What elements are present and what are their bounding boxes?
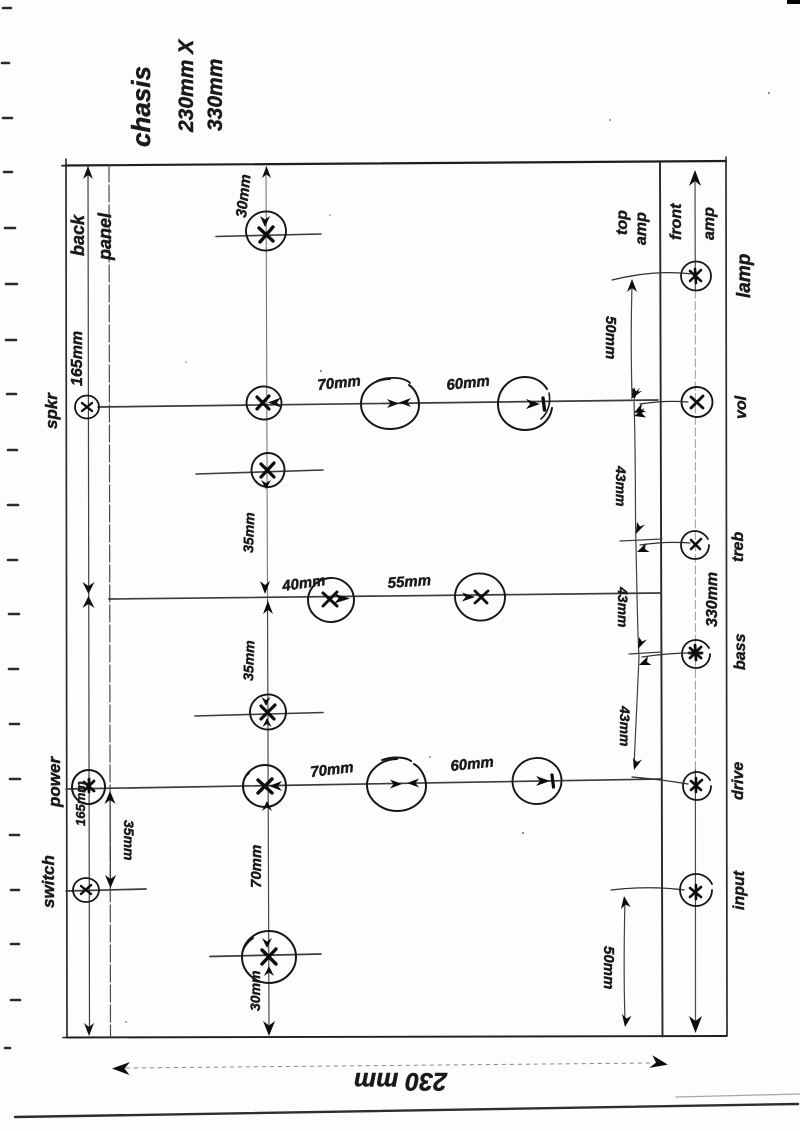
hole power X — [84, 779, 94, 792]
svg-text:treb: treb — [730, 532, 747, 562]
corner overshoots — [65, 159, 67, 166]
hole power circle — [70, 768, 107, 806]
svg-text:50mm: 50mm — [600, 946, 617, 989]
dim 50mm bottom-right line — [623, 900, 626, 1022]
svg-text:power: power — [45, 756, 64, 808]
svg-text:30mm: 30mm — [247, 971, 263, 1011]
chassis outline: right border — [726, 161, 727, 1036]
front amp panel inner line — [660, 162, 663, 1037]
front panel arrow bottom (down, large) — [689, 1016, 702, 1033]
leader 50mm to input hole — [611, 888, 684, 890]
hole switch circle — [73, 878, 99, 902]
hole input circle — [680, 874, 712, 906]
svg-text:43mm: 43mm — [613, 465, 629, 506]
hole lamp circle — [681, 262, 711, 291]
svg-text:spkr: spkr — [42, 392, 61, 429]
43mm arrows at bass — [638, 637, 647, 649]
hole drive X — [691, 778, 702, 792]
hole row3.5 inner arrows — [262, 697, 271, 706]
hole mid-b arrow (right, 55mm dim) — [462, 593, 475, 602]
left dim arrow bottom (down) — [84, 1023, 94, 1036]
svg-text:43mm: 43mm — [617, 705, 633, 746]
row line: hole row 1 tick — [216, 234, 321, 237]
hole row2-c circle (open right) — [498, 377, 552, 430]
svg-text:35mm: 35mm — [240, 512, 257, 553]
svg-text:70mm: 70mm — [248, 845, 265, 888]
svg-text:50mm: 50mm — [602, 316, 619, 359]
svg-text:40mm: 40mm — [280, 572, 326, 595]
hole vol X — [691, 396, 703, 408]
hole bottom-centre inner arrows — [262, 938, 272, 948]
hole top-centre X — [259, 227, 273, 242]
hole row4-a arrow up below X — [262, 801, 272, 811]
svg-text:35mm: 35mm — [121, 820, 137, 860]
svg-text:330mm: 330mm — [704, 572, 721, 627]
hole row4-c arrow (right) + stop — [536, 776, 550, 786]
vol leader — [640, 401, 688, 404]
svg-text:amp: amp — [633, 212, 650, 245]
svg-text:35mm: 35mm — [240, 640, 257, 681]
row line: spkr/vol row — [98, 400, 658, 407]
43mm arrows at treb — [636, 522, 645, 534]
paper edge tick marks (left margin) — [2, 8, 20, 1048]
hole bottom-centre X — [262, 949, 276, 964]
hole bottom-centre circle (double drawn) — [242, 931, 296, 983]
drive leader — [632, 777, 688, 784]
left 165mm dimension line — [88, 167, 90, 1033]
hole row2-c arrow (right) + stop — [526, 399, 540, 409]
hole row2.5 circle — [250, 451, 287, 489]
svg-text:back: back — [68, 214, 88, 256]
hole row3.5 circle — [249, 693, 288, 731]
43mm arrows at vol — [632, 388, 640, 401]
hole mid-a arrow (right, 40mm dim) — [334, 594, 350, 604]
dim 35mm line power-switch (on back panel line) — [109, 793, 112, 886]
hole bass circle — [682, 640, 710, 668]
hole row4-a circle (blobby) — [243, 765, 286, 807]
svg-text:amp: amp — [701, 207, 718, 240]
hole drive circle — [683, 772, 711, 800]
svg-text:panel: panel — [95, 212, 115, 261]
hole row4-b circle (blobby) — [367, 758, 426, 812]
svg-text:55mm: 55mm — [387, 572, 431, 592]
chassis outline: left border — [66, 166, 67, 1038]
hole treb circle — [681, 531, 709, 559]
scanner corner mark top-right — [787, 0, 800, 4]
left dim bowtie arrows mid — [83, 582, 95, 594]
row line: switch tick — [66, 889, 146, 891]
hole row4-c circle — [510, 755, 564, 807]
svg-text:top: top — [614, 210, 631, 235]
centre vertical line — [266, 167, 268, 600]
svg-text:165mm: 165mm — [73, 781, 88, 826]
front panel centre line — [694, 174, 696, 290]
dim 35mm arrows at centre/mid-row crossing — [260, 581, 270, 594]
svg-text:70mm: 70mm — [309, 759, 354, 781]
hole row2-b circle (blobby) — [361, 379, 419, 429]
hole row2-a X — [257, 396, 269, 409]
hole spkr X — [82, 403, 92, 411]
hole treb X — [691, 539, 701, 549]
centre line arrow top (up) — [262, 166, 271, 178]
svg-text:230mm X: 230mm X — [175, 38, 198, 133]
hole lamp X — [690, 269, 701, 283]
faint second bottom edge line right — [676, 1094, 800, 1097]
hole mid-a X — [323, 592, 337, 606]
hole vol circle — [680, 386, 713, 419]
hole row2.5 X — [261, 463, 274, 477]
hole spkr circle — [75, 396, 99, 419]
hole mid-b circle — [452, 570, 508, 624]
svg-text:switch: switch — [39, 855, 58, 908]
hole row4-a X — [258, 779, 272, 793]
svg-text:input: input — [731, 870, 748, 910]
hole input X — [690, 885, 701, 899]
hole bass X (dense) — [689, 645, 702, 660]
svg-text:330mm: 330mm — [204, 59, 227, 131]
row line: row 3.5 tick — [195, 713, 323, 717]
front panel arrow top (up, large) — [689, 170, 701, 186]
left dim arrow top (up) — [83, 166, 93, 179]
row line: power/drive row — [66, 779, 661, 789]
svg-text:chasis: chasis — [126, 66, 156, 147]
svg-text:bass: bass — [732, 633, 749, 670]
230mm arrow right — [649, 1055, 669, 1071]
leader 50mm to lamp hole — [612, 273, 693, 280]
hole row4-a arrow left — [269, 781, 282, 791]
svg-text:drive: drive — [730, 762, 747, 800]
230mm arrow left — [112, 1062, 130, 1075]
svg-text:165mm: 165mm — [69, 331, 86, 386]
bass tick + leader — [629, 652, 662, 654]
hole top-centre inner arrow (down) — [260, 216, 270, 227]
centre line arrow bottom (down) — [263, 1021, 275, 1036]
svg-text:60mm: 60mm — [450, 754, 495, 775]
hole mid-a circle — [306, 576, 356, 625]
scan paper bottom edge line — [15, 1104, 798, 1117]
svg-text:30mm: 30mm — [233, 174, 254, 219]
treb tick + leader — [620, 539, 662, 541]
svg-text:70mm: 70mm — [317, 373, 362, 394]
scan speckles — [125, 92, 770, 1023]
hole row2-a arrow (left, 70mm dim) — [268, 398, 281, 408]
hole switch X — [81, 885, 91, 894]
row line: middle row — [109, 593, 661, 599]
hole top-centre circle — [243, 209, 288, 253]
dim 230mm bottom line (dashed) — [126, 1063, 652, 1068]
dim 43mm line (right column) — [634, 402, 639, 766]
svg-text:lamp: lamp — [734, 254, 755, 298]
hole row4-b arrows — [390, 780, 402, 789]
hole row3.5 X — [261, 705, 275, 719]
43mm arrow at drive — [633, 758, 642, 770]
svg-text:230 mm: 230 mm — [354, 1067, 448, 1095]
hole mid-b X — [475, 591, 488, 603]
back panel inner line — [109, 165, 111, 1037]
chassis outline: bottom border — [67, 1036, 727, 1038]
svg-text:43mm: 43mm — [615, 586, 631, 627]
row line: bottom hole tick — [210, 954, 321, 957]
dim 50mm top-right line — [630, 284, 633, 396]
hole row2-b arrows — [387, 399, 399, 408]
svg-text:60mm: 60mm — [446, 373, 491, 394]
svg-text:vol: vol — [733, 395, 750, 419]
hole row2-a circle — [245, 385, 283, 421]
svg-text:front: front — [668, 203, 685, 240]
chassis outline: top border — [66, 161, 726, 166]
row line: row 2.5 tick — [196, 470, 323, 474]
